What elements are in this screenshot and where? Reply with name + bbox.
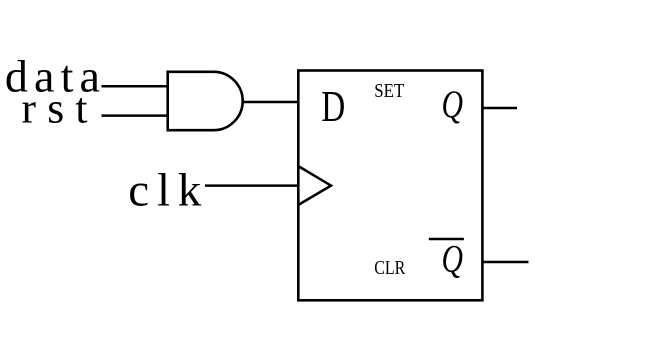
wire Q-bar output xyxy=(483,261,529,264)
wire AND gate output to D input xyxy=(243,101,298,104)
wire Q output xyxy=(483,107,517,110)
svg-text:SET: SET xyxy=(374,81,404,102)
D flip-flop U2 body xyxy=(298,71,482,301)
svg-text:Q: Q xyxy=(442,83,464,126)
clock input edge-trigger triangle xyxy=(299,167,331,205)
svg-text:D: D xyxy=(321,82,345,131)
svg-text:CLR: CLR xyxy=(374,258,405,279)
wire clk to clock input xyxy=(205,184,298,187)
svg-text:clk: clk xyxy=(128,164,202,216)
overline of Q-bar xyxy=(429,238,464,241)
wire data to AND gate input xyxy=(102,85,168,88)
svg-text:rst: rst xyxy=(22,84,88,132)
svg-text:Q: Q xyxy=(442,238,464,281)
AND gate U1 xyxy=(168,72,243,130)
wire rst to AND gate input xyxy=(102,114,168,117)
